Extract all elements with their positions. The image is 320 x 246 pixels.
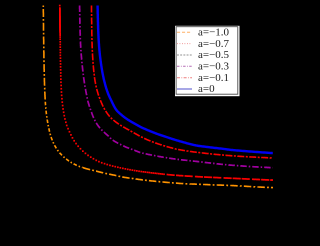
curve a=-0.3 purple dash-dot — [80, 6, 273, 168]
svg-text:a=−0.7: a=−0.7 — [198, 38, 230, 50]
legend entry a=0 — [177, 88, 192, 90]
curve a=0 blue solid — [98, 6, 273, 154]
curve a=-0.7 red dotted (point markers) — [59, 5, 273, 181]
svg-text:a=−0.1: a=−0.1 — [198, 72, 229, 84]
legend entry a=−0.3 — [177, 65, 192, 67]
legend entry a=−1.0 — [177, 31, 192, 33]
legend entry a=−0.5 — [177, 54, 192, 56]
svg-text:a=−1.0: a=−1.0 — [198, 27, 230, 39]
svg-text:a=0: a=0 — [198, 83, 215, 95]
legend entry a=−0.7 — [177, 43, 192, 45]
legend border — [176, 27, 238, 95]
curve a=-0.1 red dash-dot — [92, 6, 273, 159]
legend entry a=−0.1 — [177, 77, 192, 79]
svg-text:a=−0.3: a=−0.3 — [198, 61, 230, 73]
legend box — [175, 26, 240, 96]
svg-text:a=−0.5: a=−0.5 — [198, 49, 230, 61]
curve a=-1.0 orange dash-dot — [43, 6, 45, 102]
